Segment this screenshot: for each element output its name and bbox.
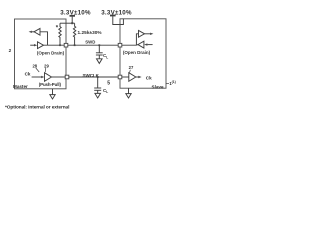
- svg-text:2: 2: [9, 48, 12, 53]
- resistor R* optional pull-up: [59, 23, 61, 45]
- resistor R 1.25k: [73, 23, 75, 45]
- arrow out of U2A: [145, 33, 151, 35]
- wire supply1 down: [71, 17, 73, 24]
- svg-text:L: L: [106, 90, 108, 94]
- svg-text:3.3V±10%: 3.3V±10%: [60, 10, 91, 17]
- pin square slave SWCLK: [118, 75, 122, 79]
- wire supply2 jog: [113, 16, 124, 24]
- leader 28: [36, 68, 39, 72]
- wire Ck to U1C: [32, 76, 42, 78]
- svg-text:(Open Drain): (Open Drain): [37, 50, 65, 55]
- wire SWCLK line: [69, 76, 118, 78]
- footnote tick s(1): [166, 83, 169, 85]
- junction R1.25k on SWD line: [74, 44, 76, 46]
- buffer U1C master SWCLK push-pull driver: [45, 73, 52, 82]
- leader 29: [44, 68, 47, 72]
- svg-text:L: L: [106, 55, 108, 59]
- capacitor CL1 on SWD line: [98, 44, 100, 46]
- junction supply1: [71, 22, 73, 24]
- svg-text:SWD: SWD: [85, 40, 95, 45]
- svg-text:1.25k±30%: 1.25k±30%: [78, 30, 103, 35]
- arrow out of U1A: [32, 31, 34, 33]
- buffer U1A master input (points left): [34, 28, 40, 35]
- leader 27: [129, 70, 132, 73]
- wire SWDIO node to master pin: [44, 44, 65, 46]
- arrow out of U2C: [136, 76, 139, 78]
- junction R* on node: [59, 44, 61, 46]
- arrow into U1B: [30, 44, 34, 46]
- ground GND4 under slave: [128, 88, 130, 93]
- svg-text:Ck: Ck: [146, 76, 152, 81]
- svg-text:3.3V±10%: 3.3V±10%: [101, 10, 132, 17]
- buffer U2B slave open-drain driver (points left): [138, 41, 144, 48]
- svg-text:(Open Drain): (Open Drain): [123, 50, 151, 55]
- wire slave SWDIO node: [122, 34, 139, 45]
- pin square master SWDIO: [64, 43, 68, 47]
- supply bar VDD1: [70, 15, 76, 17]
- ground GND2: [95, 93, 101, 98]
- slave box: [120, 19, 166, 88]
- svg-text:28: 28: [32, 63, 37, 68]
- pin square master SWCLK: [65, 75, 69, 79]
- master box: [15, 19, 67, 89]
- svg-text:(Push-Pull): (Push-Pull): [39, 82, 62, 87]
- ground GND1: [97, 59, 103, 64]
- svg-text:Ck: Ck: [25, 71, 31, 76]
- wire U2B out to node: [136, 44, 138, 47]
- wire node U1A input to pin node: [40, 32, 48, 45]
- wire U1C to pin: [52, 76, 66, 78]
- supply bar VDD2: [110, 15, 116, 17]
- svg-text:5: 5: [107, 81, 110, 87]
- ground GND3 under master: [52, 89, 54, 95]
- svg-text:(1): (1): [172, 80, 176, 84]
- svg-text:27: 27: [129, 65, 134, 70]
- arrow into U2B: [147, 44, 152, 46]
- buffer U1B master open-drain driver (points right): [38, 42, 44, 49]
- buffer U2A slave input (points right): [139, 30, 145, 37]
- pin square slave SWDIO: [118, 43, 122, 47]
- wire pin to U2C: [122, 76, 129, 78]
- svg-text:Slave: Slave: [152, 85, 164, 90]
- wire supply1 distribution bar: [60, 22, 75, 24]
- capacitor CL2 on SWCLK line: [97, 76, 99, 78]
- buffer U2C slave SWCLK input: [129, 73, 136, 82]
- wire SWDIO line: [68, 44, 118, 46]
- svg-text:*Optional: internal or extern: *Optional: internal or external: [5, 105, 69, 111]
- svg-text:Master: Master: [13, 84, 28, 89]
- svg-text:29: 29: [44, 63, 49, 68]
